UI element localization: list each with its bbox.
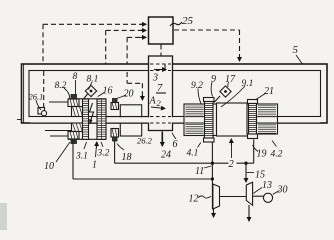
svg-text:3.2: 3.2: [97, 149, 110, 159]
svg-text:4.2: 4.2: [271, 150, 283, 160]
svg-text:7: 7: [157, 83, 163, 94]
svg-text:25: 25: [182, 15, 194, 27]
svg-text:9: 9: [211, 74, 216, 85]
svg-text:15: 15: [255, 170, 265, 181]
svg-text:21: 21: [264, 86, 274, 97]
svg-text:10: 10: [44, 161, 54, 172]
svg-text:16: 16: [103, 86, 113, 97]
svg-text:2: 2: [229, 159, 235, 170]
svg-text:20: 20: [124, 89, 134, 100]
svg-text:18: 18: [122, 152, 132, 163]
svg-text:8: 8: [73, 72, 78, 82]
svg-text:24: 24: [161, 150, 171, 161]
svg-text:9.1: 9.1: [242, 79, 254, 89]
svg-text:3: 3: [152, 73, 158, 84]
svg-text:6: 6: [173, 139, 178, 150]
svg-text:11: 11: [195, 166, 204, 177]
svg-text:26.1: 26.1: [29, 92, 44, 102]
svg-text:30: 30: [277, 185, 288, 196]
svg-text:3.1: 3.1: [75, 152, 88, 162]
svg-text:A: A: [149, 96, 157, 107]
svg-text:26.2: 26.2: [137, 136, 153, 146]
svg-text:19: 19: [257, 149, 267, 160]
svg-text:8.1: 8.1: [87, 75, 99, 85]
svg-text:13: 13: [262, 180, 272, 191]
svg-text:12: 12: [189, 194, 199, 205]
svg-text:1: 1: [92, 160, 97, 171]
svg-text:8.2: 8.2: [55, 81, 67, 91]
svg-text:5: 5: [293, 44, 299, 56]
svg-text:4.1: 4.1: [187, 149, 199, 159]
svg-text:17: 17: [225, 74, 236, 85]
svg-text:9.2: 9.2: [191, 81, 203, 91]
